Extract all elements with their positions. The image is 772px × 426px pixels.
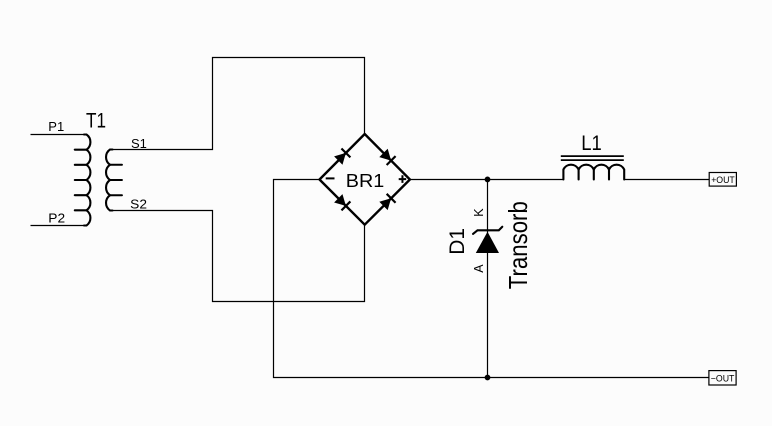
svg-text:P1: P1 [48, 119, 64, 134]
svg-text:A: A [472, 264, 486, 273]
svg-text:BR1: BR1 [346, 170, 385, 191]
svg-text:S1: S1 [131, 136, 147, 151]
svg-text:T1: T1 [86, 109, 106, 132]
svg-text:D1: D1 [446, 228, 469, 255]
svg-text:S2: S2 [130, 196, 147, 211]
svg-text:Transorb: Transorb [503, 201, 533, 289]
svg-text:P2: P2 [48, 211, 65, 226]
svg-text:−OUT: −OUT [711, 374, 735, 384]
svg-text:K: K [472, 208, 486, 217]
svg-text:L1: L1 [581, 132, 602, 155]
svg-text:+OUT: +OUT [711, 175, 735, 185]
